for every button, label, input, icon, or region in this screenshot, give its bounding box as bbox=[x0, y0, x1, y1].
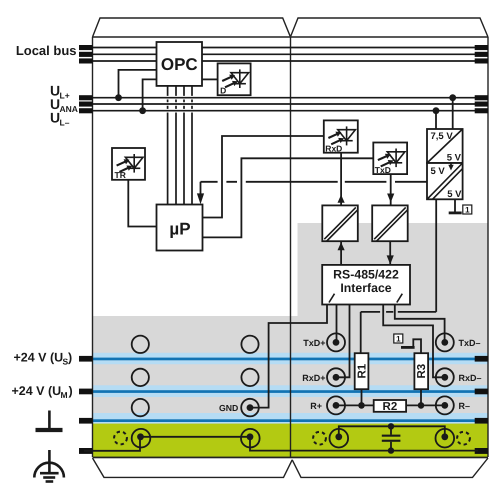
left module foot bbox=[93, 458, 293, 477]
UL+ line bbox=[93, 97, 481, 99]
right module housing outline bbox=[291, 18, 488, 37]
svg-text:RxD–: RxD– bbox=[459, 373, 482, 383]
svg-text:RS-485/422: RS-485/422 bbox=[333, 268, 399, 282]
svg-text:R+: R+ bbox=[310, 401, 322, 411]
UL- line bbox=[93, 110, 481, 112]
FE reference bar at R3 bbox=[401, 346, 415, 349]
5V supply rail to uP bbox=[201, 182, 428, 194]
left module housing outline bbox=[93, 18, 291, 37]
svg-text:5 V: 5 V bbox=[431, 166, 446, 177]
interface pin to RxD+ bbox=[338, 305, 350, 378]
module bottom border line bbox=[93, 457, 489, 459]
PE terminal circle left bbox=[132, 429, 151, 448]
svg-text:RxD: RxD bbox=[325, 143, 342, 153]
FE symbol bbox=[36, 411, 63, 431]
OPC to uP bus line 4 bbox=[191, 86, 193, 205]
svg-text:RxD+: RxD+ bbox=[302, 373, 325, 383]
PE terminal circle right1 bbox=[330, 429, 349, 448]
24V US terminal bar right bbox=[475, 356, 488, 362]
DC/DC converter 5V-5V isolated bbox=[427, 163, 463, 200]
svg-text:1: 1 bbox=[396, 334, 401, 343]
LED TR indicator bbox=[112, 148, 145, 180]
R3 top to FE reference bbox=[413, 339, 421, 353]
OPC box U1 bbox=[157, 42, 203, 86]
junction dot R3 bottom bbox=[418, 402, 425, 409]
wire U L- tap to OPC bbox=[143, 79, 157, 110]
DC/DC ground stub bbox=[454, 199, 456, 211]
svg-text:D: D bbox=[220, 85, 226, 95]
boxed 1 marker at DC/DC bbox=[463, 205, 472, 214]
interface pin to TxD+ bbox=[336, 305, 338, 343]
RS-485/422 interface box U3 bbox=[322, 265, 410, 305]
5V isolated output down from DC/DC bbox=[361, 199, 437, 353]
optocoupler O2 bbox=[372, 205, 408, 241]
capacitor C1 bbox=[382, 423, 401, 454]
svg-text:TxD+: TxD+ bbox=[303, 338, 325, 348]
arrowhead up to O1 bbox=[338, 242, 345, 250]
svg-text:L+: L+ bbox=[60, 91, 70, 101]
LED RxD indicator bbox=[324, 120, 358, 153]
+24V US blue rail bbox=[93, 358, 488, 361]
FE terminal bar right bbox=[475, 418, 488, 424]
LED TxD indicator bbox=[373, 143, 407, 176]
svg-text:GND: GND bbox=[219, 403, 238, 413]
PE terminal circle right2 bbox=[436, 429, 455, 448]
svg-text:1: 1 bbox=[465, 205, 470, 214]
interface pin to GND terminal bbox=[252, 305, 327, 408]
PE terminal circle left2 bbox=[241, 429, 260, 448]
local bus lines bbox=[93, 48, 481, 62]
FE blue rail bbox=[93, 419, 488, 422]
svg-text:TxD: TxD bbox=[375, 165, 391, 175]
arrowhead up to RxD LED bbox=[338, 195, 345, 203]
gray electronics area lower both modules bbox=[93, 316, 488, 425]
wire TxD LED to optocoupler O2 bbox=[390, 174, 392, 205]
wire OPC to D LED bbox=[202, 78, 218, 80]
junction dot UL- bbox=[139, 107, 146, 114]
svg-text:L–: L– bbox=[60, 118, 70, 128]
svg-text:TR: TR bbox=[115, 170, 126, 180]
PE terminal circle left dashed bbox=[114, 432, 127, 445]
local bus terminal bars right bbox=[475, 45, 488, 64]
arrowhead down to O2 bbox=[387, 194, 394, 203]
module separation line bbox=[290, 36, 292, 457]
24V US terminal bar left bbox=[79, 356, 93, 362]
green PE band bbox=[93, 424, 488, 457]
svg-text:Local bus: Local bus bbox=[16, 43, 77, 58]
PE terminal bar left bbox=[79, 448, 93, 454]
svg-text:R–: R– bbox=[459, 401, 471, 411]
wire TR LED to uP bbox=[128, 180, 156, 227]
+24V UM blue rail bbox=[93, 390, 488, 393]
svg-text:OPC: OPC bbox=[161, 55, 198, 74]
wire UL+ to DC/DC bbox=[452, 98, 454, 129]
wire optocoupler O2 to RS-485 interface bbox=[389, 241, 391, 265]
GND terminal bbox=[241, 399, 259, 417]
svg-text:+24 V (U: +24 V (U bbox=[14, 351, 64, 365]
svg-text:+24 V (U: +24 V (U bbox=[12, 384, 62, 398]
right module right edge bbox=[487, 37, 489, 457]
boxed 1 marker at R3 bbox=[394, 334, 403, 343]
optocoupler O1 bbox=[322, 205, 358, 241]
RxD- terminal bbox=[436, 368, 454, 386]
TxD+ terminal bbox=[327, 333, 345, 351]
R+ terminal bbox=[327, 396, 345, 414]
R+ to R- wire bbox=[336, 404, 445, 406]
svg-text:R3: R3 bbox=[416, 364, 428, 379]
24V UM terminal bar right bbox=[475, 389, 488, 395]
R1 bottom stub bbox=[361, 389, 363, 405]
arrowhead down into interface bbox=[387, 255, 394, 264]
PE dashed circle right of left2 bbox=[313, 432, 326, 445]
OPC to uP bus line 3 bbox=[183, 86, 185, 205]
LED D indicator bbox=[218, 63, 251, 95]
wire UL- to DC/DC bbox=[435, 111, 437, 129]
svg-text:R1: R1 bbox=[356, 363, 368, 378]
24V US light blue band bbox=[93, 353, 488, 364]
svg-text:5 V: 5 V bbox=[447, 189, 462, 200]
left module left edge bbox=[92, 37, 94, 457]
small arrow 5V into second stage bbox=[450, 163, 452, 166]
OPC to uP bus line 1 bbox=[167, 86, 169, 205]
svg-text:Interface: Interface bbox=[340, 281, 391, 295]
svg-text:): ) bbox=[68, 351, 72, 365]
wire uP TxD out to TxD LED bbox=[203, 158, 374, 237]
PE terminal bar right bbox=[475, 448, 488, 454]
PE earth symbol bbox=[34, 450, 64, 482]
wire optocoupler O1 to RS-485 interface bbox=[340, 241, 342, 265]
green band wire left to PE bar bbox=[84, 437, 140, 451]
junction dot UL+ bbox=[115, 94, 122, 101]
right module foot bbox=[292, 458, 488, 477]
svg-text:TxD–: TxD– bbox=[459, 338, 481, 348]
svg-text:5 V: 5 V bbox=[447, 153, 462, 164]
OPC to uP bus line 2 bbox=[175, 86, 177, 205]
TxD- terminal bbox=[436, 333, 454, 351]
DC/DC ground bar bbox=[449, 212, 462, 215]
svg-text:): ) bbox=[69, 384, 73, 398]
svg-text:7,5 V: 7,5 V bbox=[431, 131, 454, 142]
junction dot UL- DCDC bbox=[433, 107, 440, 114]
left module terminal circles column 1 bbox=[132, 336, 259, 417]
interface pin to TxD- bbox=[395, 305, 445, 343]
PE dashed circle far right bbox=[457, 432, 470, 445]
local bus terminal bars left bbox=[79, 45, 93, 64]
svg-text:µP: µP bbox=[169, 220, 190, 239]
svg-text:ANA: ANA bbox=[60, 104, 78, 114]
FE light blue band bbox=[93, 413, 488, 424]
interface pin to RxD- bbox=[383, 305, 443, 378]
green band wire left module upper bbox=[140, 436, 250, 438]
U terminal bars right bbox=[475, 95, 488, 113]
junction dot UL+ DCDC bbox=[449, 94, 456, 101]
24V UM light blue band bbox=[93, 385, 488, 397]
FE terminal bar left bbox=[79, 418, 93, 424]
gray electronics area right module bbox=[298, 223, 489, 316]
uP box U2 bbox=[157, 205, 203, 251]
resistor R1 bbox=[355, 353, 369, 389]
junction dot R1 bottom bbox=[358, 402, 365, 409]
R- terminal bbox=[436, 396, 454, 414]
svg-text:M: M bbox=[61, 390, 68, 400]
wire RxD LED to optocoupler O1 bbox=[340, 153, 342, 206]
U terminal bars left bbox=[79, 95, 93, 113]
wire RxD LED to uP bbox=[203, 136, 324, 218]
green band wire right module upper bbox=[339, 426, 445, 437]
UANA line bbox=[93, 103, 481, 105]
RxD+ terminal bbox=[327, 368, 345, 386]
24V UM terminal bar left bbox=[79, 389, 93, 395]
svg-text:R2: R2 bbox=[383, 401, 398, 413]
resistor R3 bbox=[414, 353, 428, 389]
module front top edge bbox=[93, 36, 489, 38]
arrowhead into uP bbox=[197, 193, 204, 204]
resistor R2 bbox=[374, 400, 406, 413]
green band wire lower to right PE bar bbox=[250, 437, 478, 451]
R3 bottom stub bbox=[420, 389, 422, 405]
DC/DC converter 7.5V-5V bbox=[427, 129, 463, 164]
wire U L+ tap to OPC bbox=[119, 70, 157, 98]
